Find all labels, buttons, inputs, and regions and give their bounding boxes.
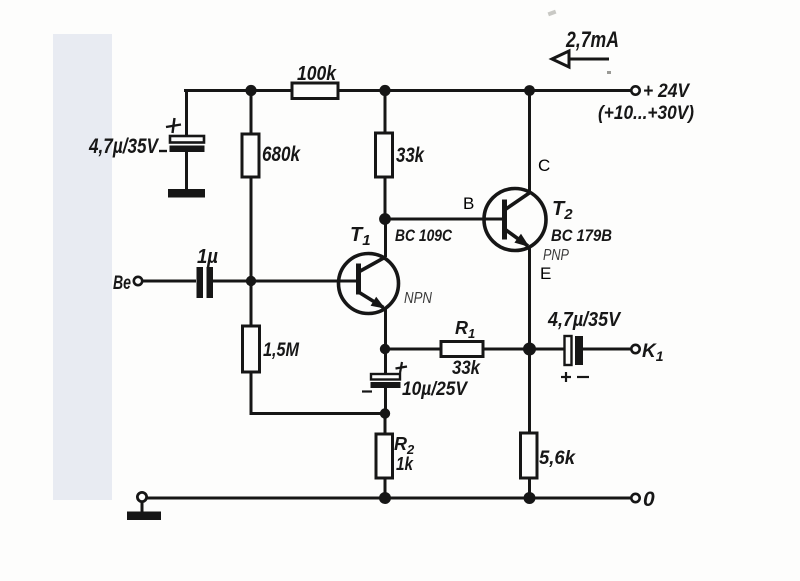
wire top rail +24V [184,89,631,92]
capacitor 10u/25V electrolytic [371,374,401,388]
svg-text:10µ/25V: 10µ/25V [402,379,468,400]
transistor Q1 T1 BC109C [339,219,399,314]
scan speck near 2,7mA [548,10,557,16]
scan background band [53,34,112,500]
svg-text:T1: T1 [350,224,371,249]
wire left branch down from rail [185,91,188,137]
minus mark of 47u cap [159,150,167,152]
svg-text:4,7µ/35V: 4,7µ/35V [547,309,621,331]
wire ground rail [146,497,631,500]
wire T1 emitter down [384,309,387,349]
wire output node to 4,7u cap [530,348,566,351]
wire 33k bottom to T1 collector node [384,177,387,219]
resistor 100k [292,83,338,99]
wire 33k top [384,91,387,134]
terminal ground left [137,492,146,501]
wire emitter node down to 10u cap [384,349,387,374]
svg-text:(+10...+30V): (+10...+30V) [598,102,694,124]
terminal +24V [631,86,639,94]
wire R1 to output node [483,348,530,351]
node 5,6k / ground rail [524,492,536,504]
capacitor 1u [197,267,214,298]
capacitor 47u/35V plus sign [166,118,181,133]
current arrow 2,7mA [552,51,609,67]
resistor 680k [242,134,259,177]
svg-text:Be: Be [113,273,131,294]
resistor 1,5M [243,326,260,372]
svg-text:NPN: NPN [404,290,432,307]
svg-text:T2: T2 [552,198,573,223]
terminal 0 [631,494,639,502]
svg-text:BC 109C: BC 109C [395,226,453,245]
terminal Be input [134,277,142,285]
wire 4,7u cap to K1 [583,348,631,351]
wire from 47u cap down [185,152,188,190]
T1 emitter arrow NPN [371,297,386,309]
polarity marks of 4,7u cap [561,372,589,382]
wire 10u cap to RC node [384,388,387,414]
wire T2 base [385,218,504,221]
wire 1,5M bottom to emitter RC node [251,372,385,414]
svg-text:5,6k: 5,6k [539,448,576,469]
terminal K1 [631,345,639,353]
resistor R2 1k [376,434,393,478]
capacitor 10u/25V plus sign [396,362,408,373]
wire 680k bottom to base node [250,177,253,281]
svg-text:100k: 100k [297,63,337,85]
ground bar below 47u cap [168,189,205,198]
T2 emitter arrow [514,234,529,247]
svg-text:1µ: 1µ [197,246,218,268]
wire Be to 1u cap [143,280,196,283]
wire 680k top [250,91,253,135]
node R2 / ground rail [379,492,391,504]
svg-text:BC 179B: BC 179B [551,226,612,245]
svg-text:B: B [463,194,474,213]
scan speck below arrow [607,71,611,74]
svg-text:33k: 33k [396,144,425,167]
minus mark of 10u cap [362,390,372,392]
node T1 collector / T2 base [379,213,391,225]
wire base node down to 1,5M [250,281,253,326]
wire output node down to 5,6k [528,349,531,433]
svg-text:0: 0 [643,488,655,511]
svg-text:680k: 680k [262,143,301,166]
capacitor 47u/35V electrolytic [170,136,205,152]
node junction top rail / 33k [379,85,390,96]
node emitter junction [380,344,390,354]
svg-text:33k: 33k [452,358,481,379]
svg-text:R1: R1 [455,318,475,341]
capacitor 4,7u/35V electrolytic [565,336,584,365]
node junction top rail / T2 collector [524,85,535,96]
wire RC node to R2 [384,414,387,435]
svg-text:E: E [540,264,551,283]
svg-text:K1: K1 [642,341,664,364]
svg-text:4,7µ/35V: 4,7µ/35V [88,135,159,158]
wire emitter node to R1 [385,348,441,351]
resistor 5,6k [521,433,538,478]
transistor Q2 T2 BC179B [484,91,546,251]
wire T2 emitter down to output node [528,246,531,349]
node base junction [246,276,256,286]
svg-text:2,7mA: 2,7mA [565,27,619,52]
svg-text:1,5M: 1,5M [263,340,300,361]
svg-text:+ 24V: + 24V [643,81,690,102]
resistor R1 33k [441,342,483,357]
svg-text:PNP: PNP [543,247,569,264]
resistor 33k [376,133,393,177]
svg-text:C: C [538,156,550,175]
node output junction [523,343,536,356]
svg-text:1k: 1k [396,454,414,474]
node RC junction [380,408,390,418]
node junction top rail / 680k [245,85,256,96]
ground symbol [127,501,161,520]
wire R2 to ground rail [384,478,387,498]
wire 1u cap to base node [213,280,340,283]
wire 5,6k to ground rail [528,478,531,498]
